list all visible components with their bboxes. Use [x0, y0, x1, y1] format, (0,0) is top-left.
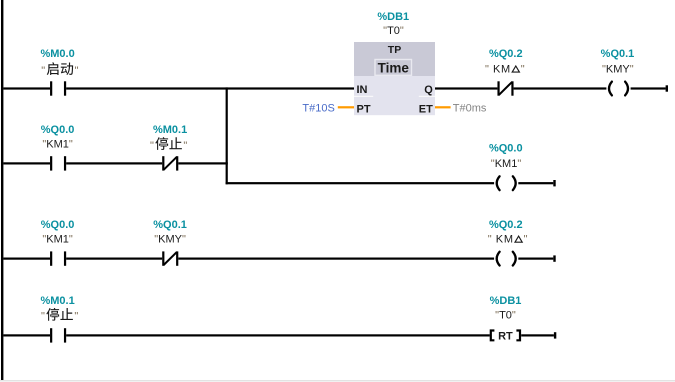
wire PT input stub (orange) — [338, 106, 354, 108]
svg-text:"KM1": "KM1" — [42, 139, 73, 151]
svg-text:": " — [41, 311, 45, 323]
svg-text:": " — [524, 233, 528, 245]
wire timer Q to contact Q0.2 — [435, 87, 497, 89]
coil %Q0.2 — [497, 252, 516, 266]
coil %Q0.1 — [609, 82, 628, 96]
contact %Q0.2 (NC) — [497, 81, 513, 95]
network bottom separator — [0, 380, 675, 381]
svg-text:": " — [488, 233, 492, 245]
wire Q0.0 to contact M0.1 — [66, 162, 162, 164]
svg-text:%M0.0: %M0.0 — [40, 48, 74, 60]
svg-text:": " — [485, 63, 489, 75]
svg-text:"KM1": "KM1" — [42, 233, 73, 245]
contact %Q0.1 (NC) interlock — [162, 251, 178, 265]
contact %M0.0 (NO) — [50, 81, 66, 95]
wire ET output stub (orange) — [435, 106, 451, 108]
svg-text:"T0": "T0" — [383, 25, 404, 37]
wire rail to contact M0.0 — [3, 87, 50, 89]
svg-text:": " — [74, 311, 78, 323]
svg-text:%Q0.1: %Q0.1 — [601, 48, 635, 60]
svg-text:%Q0.2: %Q0.2 — [489, 48, 523, 60]
left power rail — [1, 0, 3, 380]
svg-text:IN: IN — [357, 84, 368, 96]
svg-text:"KM1": "KM1" — [491, 158, 522, 170]
wire junction to coil Q0.0 — [226, 182, 495, 184]
wire contact M0.1 to RT box — [66, 334, 490, 336]
branch end tick — [553, 180, 555, 186]
svg-text:%Q0.0: %Q0.0 — [41, 219, 75, 231]
contact %Q0.0 (NO) seal-in — [50, 156, 66, 170]
rung 4 end tick — [554, 332, 556, 338]
label "停止" rung2 — [150, 137, 187, 152]
contact %Q0.0 (NO) rung3 — [50, 251, 66, 265]
svg-text:"KMY": "KMY" — [602, 63, 634, 75]
wire contact M0.0 to timer IN — [66, 87, 354, 89]
svg-text:"KMY": "KMY" — [154, 233, 186, 245]
svg-text:T#0ms: T#0ms — [453, 102, 487, 114]
wire rail to contact Q0.0 rung3 — [3, 258, 50, 260]
rung 1 end tick — [666, 85, 668, 91]
wire contact M0.1 to junction — [178, 162, 228, 164]
wire rail to contact M0.1 rung4 — [3, 334, 50, 336]
svg-text:ET: ET — [419, 103, 433, 115]
svg-text:%DB1: %DB1 — [377, 11, 409, 23]
wire RT box to rung end — [521, 334, 554, 336]
contact %M0.1 (NC) stop — [162, 156, 178, 170]
svg-text:%Q0.2: %Q0.2 — [489, 219, 523, 231]
svg-text:%Q0.1: %Q0.1 — [153, 219, 187, 231]
label "KM&#9651;" coil — [488, 233, 528, 245]
svg-text:": " — [41, 65, 45, 77]
wire rail to contact Q0.0 — [3, 162, 50, 164]
svg-text:TP: TP — [388, 44, 401, 56]
svg-text:": " — [521, 63, 525, 75]
svg-text:"T0": "T0" — [495, 309, 516, 321]
svg-text:Time: Time — [378, 61, 410, 76]
svg-text:Q: Q — [424, 84, 433, 96]
reset timer box [RT] %DB1 "T0" — [491, 330, 520, 342]
label "KM&#9651;" — [485, 63, 525, 75]
svg-text:PT: PT — [357, 103, 371, 115]
svg-text:%Q0.0: %Q0.0 — [489, 143, 523, 155]
svg-text:": " — [183, 140, 187, 152]
label "停止" rung4 — [41, 308, 78, 323]
wire coil Q0.2 to rung end — [518, 258, 553, 260]
svg-text:": " — [75, 65, 79, 77]
svg-text:KM: KM — [496, 233, 514, 245]
wire coil Q0.1 to rung end — [631, 87, 666, 89]
wire contact Q0.1 to coil Q0.2 — [178, 258, 494, 260]
svg-text:KM: KM — [493, 63, 511, 75]
svg-text:": " — [150, 140, 154, 152]
svg-text:%M0.1: %M0.1 — [153, 124, 187, 136]
label "启动" — [41, 62, 78, 77]
wire branch junction vertical — [226, 87, 228, 184]
wire coil Q0.0 to branch end — [518, 182, 553, 184]
contact %M0.1 (NO) rung4 — [50, 328, 66, 342]
coil %Q0.0 — [497, 176, 516, 190]
svg-text:RT: RT — [498, 330, 513, 342]
svg-text:%M0.1: %M0.1 — [40, 295, 74, 307]
svg-text:%Q0.0: %Q0.0 — [41, 124, 75, 136]
svg-text:T#10S: T#10S — [302, 102, 334, 114]
rung 3 end tick — [553, 255, 555, 261]
svg-text:%DB1: %DB1 — [490, 295, 522, 307]
wire contact Q0.2 to coil Q0.1 — [514, 87, 607, 89]
timer block U1 TP "T0" — [354, 42, 435, 115]
wire Q0.0 to contact Q0.1 — [66, 258, 162, 260]
